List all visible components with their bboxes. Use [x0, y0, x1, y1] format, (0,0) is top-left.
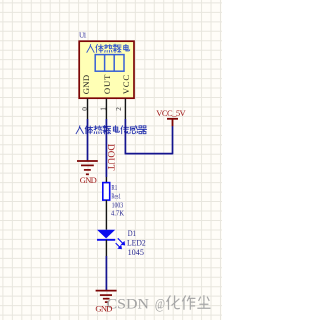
svg-text:2: 2: [115, 107, 123, 111]
pin 0 (GND): [87, 99, 89, 120]
svg-text:4.7K: 4.7K: [111, 210, 124, 218]
wire: VCC riser up: [172, 126, 174, 155]
svg-text:0: 0: [81, 107, 89, 111]
power port VCC_5V bar: [167, 118, 178, 120]
ground symbol upper: [77, 161, 98, 174]
svg-text:@: @: [155, 297, 165, 313]
svg-text:VCC: VCC: [121, 75, 131, 95]
LED D1 triangle: [97, 230, 115, 239]
svg-text:VCC_5V: VCC_5V: [156, 108, 186, 118]
pin 2 (VCC): [124, 99, 126, 120]
wire: OUT pin down to R1: [105, 119, 107, 177]
sensor U1 body: [79, 41, 134, 98]
power port VCC_5V stem: [172, 119, 174, 126]
label 人体热释电传感器: [76, 126, 83, 134]
svg-text:Res1: Res1: [111, 193, 121, 201]
svg-text:LED2: LED2: [127, 238, 146, 247]
svg-text:U1: U1: [79, 31, 87, 40]
LED D1 emission arrows: [116, 238, 125, 248]
svg-text:GND: GND: [95, 304, 112, 314]
U1 connector rectangle: [95, 55, 124, 72]
ground symbol lower: [96, 291, 117, 303]
svg-text:GND: GND: [80, 175, 97, 185]
wire: VCC pin down: [124, 119, 126, 154]
svg-text:1: 1: [99, 107, 107, 111]
wire: D1 to ground: [105, 256, 107, 290]
wire: R1 to D1: [105, 200, 107, 230]
LED D1 cathode bar: [97, 239, 115, 241]
svg-text:GND: GND: [81, 75, 91, 95]
D1 bottom pin: [105, 240, 107, 256]
U1 title text 人体热释电: [87, 45, 94, 53]
svg-text:DOUT: DOUT: [105, 144, 115, 171]
resistor R1 body: [103, 183, 110, 201]
svg-text:R1: R1: [111, 184, 117, 192]
svg-text:OUT: OUT: [102, 74, 112, 94]
wire: U1 GND pin to ground: [87, 119, 89, 161]
svg-text:1003: 1003: [112, 201, 124, 209]
svg-text:CSDN: CSDN: [107, 297, 149, 313]
svg-text:1045: 1045: [128, 248, 144, 257]
wire: horizontal to VCC riser: [125, 153, 173, 155]
svg-text:D1: D1: [128, 229, 136, 238]
watermark 化作尘: [167, 296, 179, 309]
pin 1 (OUT): [105, 99, 107, 120]
resistor R1 top pin: [105, 177, 107, 183]
